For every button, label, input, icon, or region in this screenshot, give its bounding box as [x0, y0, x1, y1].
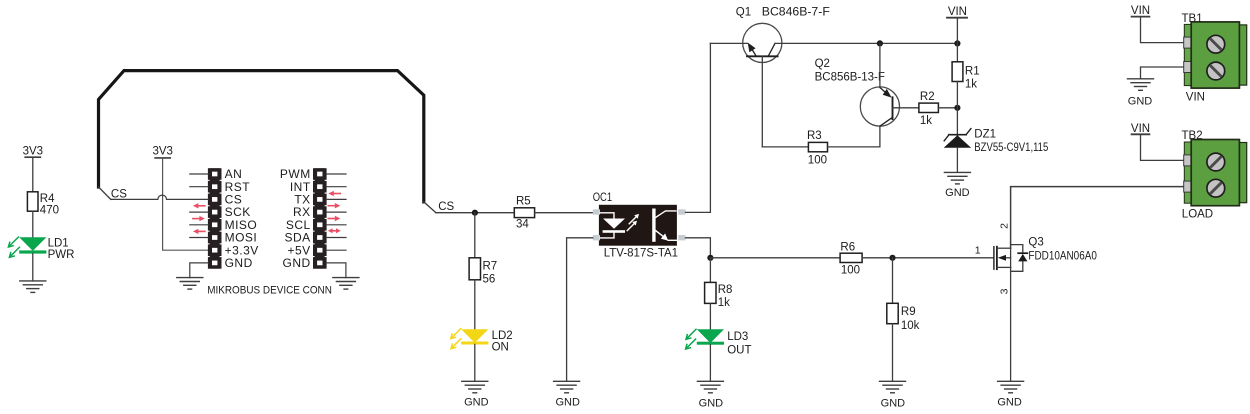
arrow INT in [328, 191, 340, 196]
transistor Q2 BC856B-13-F [815, 58, 900, 126]
wire Q1 collector rail to VIN [775, 42, 957, 44]
power rail 3V3 (header) [152, 146, 172, 158]
wire TB1 pin2 to ground [1141, 67, 1185, 79]
svg-text:OC1: OC1 [593, 190, 613, 204]
wire OC1 pin2 to ground [567, 238, 593, 381]
wire stub MISO [190, 224, 208, 226]
ground (J1) [177, 278, 203, 290]
wire Q2 base to R2 [893, 107, 919, 109]
svg-text:R9: R9 [901, 306, 916, 318]
svg-text:VIN: VIN [948, 6, 967, 18]
svg-text:BC856B-13-F: BC856B-13-F [815, 72, 885, 84]
LED LD1 [8, 237, 74, 261]
svg-text:34: 34 [516, 219, 529, 231]
header J2 body (mikroBUS right) [315, 168, 325, 268]
wire stub AN [190, 173, 208, 175]
svg-text:100: 100 [808, 154, 827, 166]
svg-text:GND: GND [997, 397, 1022, 409]
pin +3.3V [208, 244, 222, 256]
header J1 body (mikroBUS left) [210, 168, 220, 268]
svg-text:2: 2 [999, 223, 1011, 229]
wire R2 to DZ1 node [938, 107, 957, 109]
wire VIN to TB1 pin1 [1141, 17, 1185, 42]
arrow SDA bidir [328, 228, 341, 233]
wire R9 to ground [892, 324, 894, 382]
wire Q3 drain up to TB2 [1011, 187, 1185, 249]
power rail VIN (TB2) [1131, 123, 1150, 135]
arrow TX out [328, 203, 340, 208]
svg-text:1k: 1k [920, 115, 932, 127]
wire CS net (thick loop) [99, 71, 424, 202]
svg-text:R2: R2 [920, 91, 935, 103]
wire CS node to R5 [436, 212, 514, 214]
wire LD3 to ground [709, 345, 711, 382]
svg-text:56: 56 [483, 274, 496, 286]
svg-text:R5: R5 [516, 196, 531, 208]
wire R3 rail [762, 146, 808, 148]
diode Q3 body [1011, 245, 1028, 272]
arrow SCK in [193, 203, 205, 208]
ground (J2) [333, 278, 359, 290]
svg-text:VIN: VIN [1186, 91, 1205, 103]
svg-text:R3: R3 [807, 130, 822, 142]
transistor Q1 BC846B-7-F [736, 6, 830, 62]
pin MOSI [208, 232, 222, 244]
node junction Q2 emitter [877, 40, 883, 46]
svg-text:R8: R8 [718, 284, 733, 296]
pin PWM [313, 168, 327, 180]
node junction R1/R2/DZ1 [954, 105, 960, 111]
pin SCK [208, 206, 222, 218]
wire R5 to OC1 pin1 [535, 212, 593, 214]
pin GND J2 [313, 257, 327, 269]
svg-text:GND: GND [945, 187, 970, 199]
wire stub RST [190, 186, 208, 188]
svg-text:R1: R1 [965, 66, 980, 78]
terminal block TB1 [1182, 13, 1247, 104]
wire stub SCL [326, 224, 346, 226]
svg-text:100: 100 [841, 265, 860, 277]
svg-text:FDD10AN06A0: FDD10AN06A0 [1028, 251, 1097, 263]
power rail VIN (TB1) [1131, 5, 1150, 17]
pin CS [208, 194, 222, 206]
wire CS elbow left [99, 187, 111, 199]
svg-text:GND: GND [881, 398, 906, 410]
wire R4 to LD1 [32, 211, 34, 237]
resistor R5 [514, 196, 534, 231]
J2 pin labels [280, 167, 311, 270]
wire stub SCK [190, 211, 208, 213]
wire stub MOSI [190, 237, 208, 239]
wire 3V3 to R4 [32, 158, 34, 192]
svg-text:LD3: LD3 [727, 331, 748, 343]
wire LD1 to ground [32, 254, 34, 281]
ground (R9) [880, 381, 906, 393]
power rail 3V3 (left) [23, 146, 43, 158]
svg-text:470: 470 [40, 204, 59, 216]
ground (Q3) [998, 381, 1024, 393]
svg-text:OUT: OUT [727, 345, 751, 357]
wire LD2 to ground [474, 344, 476, 381]
node junction R8 tap [707, 255, 713, 261]
wire VIN to TB2 pin1 [1141, 135, 1185, 160]
svg-text:GND: GND [464, 396, 489, 408]
ground (LD1) [20, 281, 46, 293]
pin INT [313, 181, 327, 193]
svg-text:LTV-817S-TA1: LTV-817S-TA1 [604, 247, 678, 259]
wire OC1 pin3 to R6 rail [686, 238, 711, 258]
pin +5V [313, 244, 327, 256]
wire R6 to Q3 gate [862, 257, 993, 259]
ground (OC1 pin2) [554, 381, 580, 393]
wire VIN node to R1 [956, 43, 958, 61]
svg-text:DZ1: DZ1 [974, 128, 996, 140]
svg-text:3V3: 3V3 [152, 146, 172, 158]
svg-text:LD1: LD1 [48, 237, 69, 249]
svg-text:VIN: VIN [1131, 5, 1150, 17]
wire stub INT [326, 186, 346, 188]
node junction VIN/R1 [954, 40, 960, 46]
svg-text:PWR: PWR [48, 249, 75, 261]
resistor R4 [27, 192, 59, 217]
power rail VIN (top) [947, 6, 967, 43]
node junction R9 tap [889, 255, 895, 261]
svg-text:GND: GND [555, 396, 580, 408]
wire stub PWM [326, 173, 346, 175]
resistor R2 [919, 91, 939, 127]
svg-text:LD2: LD2 [492, 330, 513, 342]
wire R3 to Q2 collector [828, 126, 880, 147]
pin GND [208, 257, 222, 269]
pin MISO [208, 219, 222, 231]
arrow MISO out [193, 216, 205, 221]
wire OC1 pin4 up to Q1 [686, 43, 711, 212]
svg-text:ON: ON [492, 341, 509, 353]
svg-text:3V3: 3V3 [23, 146, 43, 158]
svg-text:GND: GND [1128, 95, 1153, 107]
ground (LD2) [462, 381, 488, 393]
resistor R1 [952, 62, 980, 91]
wire R1 to DZ1 [956, 82, 958, 140]
LED LD3 [686, 329, 752, 356]
terminal block TB2 [1182, 130, 1247, 221]
svg-text:1k: 1k [718, 297, 730, 309]
svg-text:CS: CS [111, 188, 127, 200]
wire 3V3 to +3.3V pin [163, 159, 209, 251]
wire junction to R9 [892, 258, 894, 304]
pin RST [208, 181, 222, 193]
wire R6 rail [710, 257, 840, 259]
ground (TB1) [1128, 79, 1154, 91]
pin SDA [313, 232, 327, 244]
arrow MOSI in [193, 229, 205, 234]
wire junction to R7 [474, 213, 476, 258]
resistor R7 [469, 258, 497, 286]
LED LD2 [451, 329, 513, 354]
pin AN [208, 168, 222, 180]
optocoupler OC1 [593, 190, 686, 260]
transistor Q3 FDD10AN06A0 (N-MOSFET) [975, 223, 1097, 295]
svg-text:CS: CS [438, 201, 454, 213]
resistor R8 [705, 282, 733, 308]
svg-text:R6: R6 [840, 241, 855, 253]
svg-text:Q2: Q2 [815, 58, 830, 70]
J1 pin labels [225, 167, 259, 270]
pin TX [313, 194, 327, 206]
wire stub GND J2 [326, 263, 346, 278]
svg-text:VIN: VIN [1131, 123, 1150, 135]
svg-text:BZV55-C9V1,115: BZV55-C9V1,115 [974, 142, 1048, 154]
svg-text:1k: 1k [965, 79, 977, 91]
svg-text:LOAD: LOAD [1182, 209, 1213, 221]
svg-text:10k: 10k [901, 320, 920, 332]
svg-text:BC846B-7-F: BC846B-7-F [762, 6, 830, 18]
wire stub SDA [326, 237, 346, 239]
ground (LD3) [697, 381, 723, 393]
wire stub TX [326, 198, 346, 200]
svg-text:Q1: Q1 [736, 6, 751, 18]
svg-text:GND: GND [225, 256, 253, 270]
wire Q3 source to ground [1010, 267, 1012, 381]
svg-text:R4: R4 [40, 193, 55, 205]
wire DZ1 to ground [956, 148, 958, 173]
wire junction to R8 [709, 258, 711, 283]
wire Q2 emitter up [879, 43, 881, 87]
arrow RX out [328, 216, 340, 221]
svg-text:3: 3 [999, 288, 1011, 294]
wire CS elbow right [424, 202, 436, 213]
pin RX [313, 206, 327, 218]
wire R7 to LD2 [474, 280, 476, 330]
wire stub GND J1 [190, 263, 208, 278]
wire R8 to LD3 [709, 303, 711, 329]
wire stub +5V [326, 249, 346, 251]
wire stub RX [326, 211, 346, 213]
svg-text:GND: GND [699, 398, 724, 410]
wire Q1 emitter [710, 42, 747, 44]
pin SCL [313, 219, 327, 231]
resistor R6 [840, 241, 862, 276]
node junction (R7 tap) [472, 210, 478, 216]
ground (DZ1) [944, 172, 970, 184]
zener diode DZ1 [944, 128, 1049, 154]
resistor R9 [887, 303, 920, 332]
svg-text:R7: R7 [483, 261, 498, 273]
svg-text:GND: GND [283, 256, 311, 270]
svg-text:Q3: Q3 [1028, 237, 1043, 249]
svg-text:1: 1 [975, 244, 981, 256]
wire CS with hop [111, 195, 208, 199]
wire Q1 base down [761, 56, 763, 147]
svg-text:MIKROBUS DEVICE CONN: MIKROBUS DEVICE CONN [207, 284, 332, 296]
resistor R3 [807, 130, 828, 166]
